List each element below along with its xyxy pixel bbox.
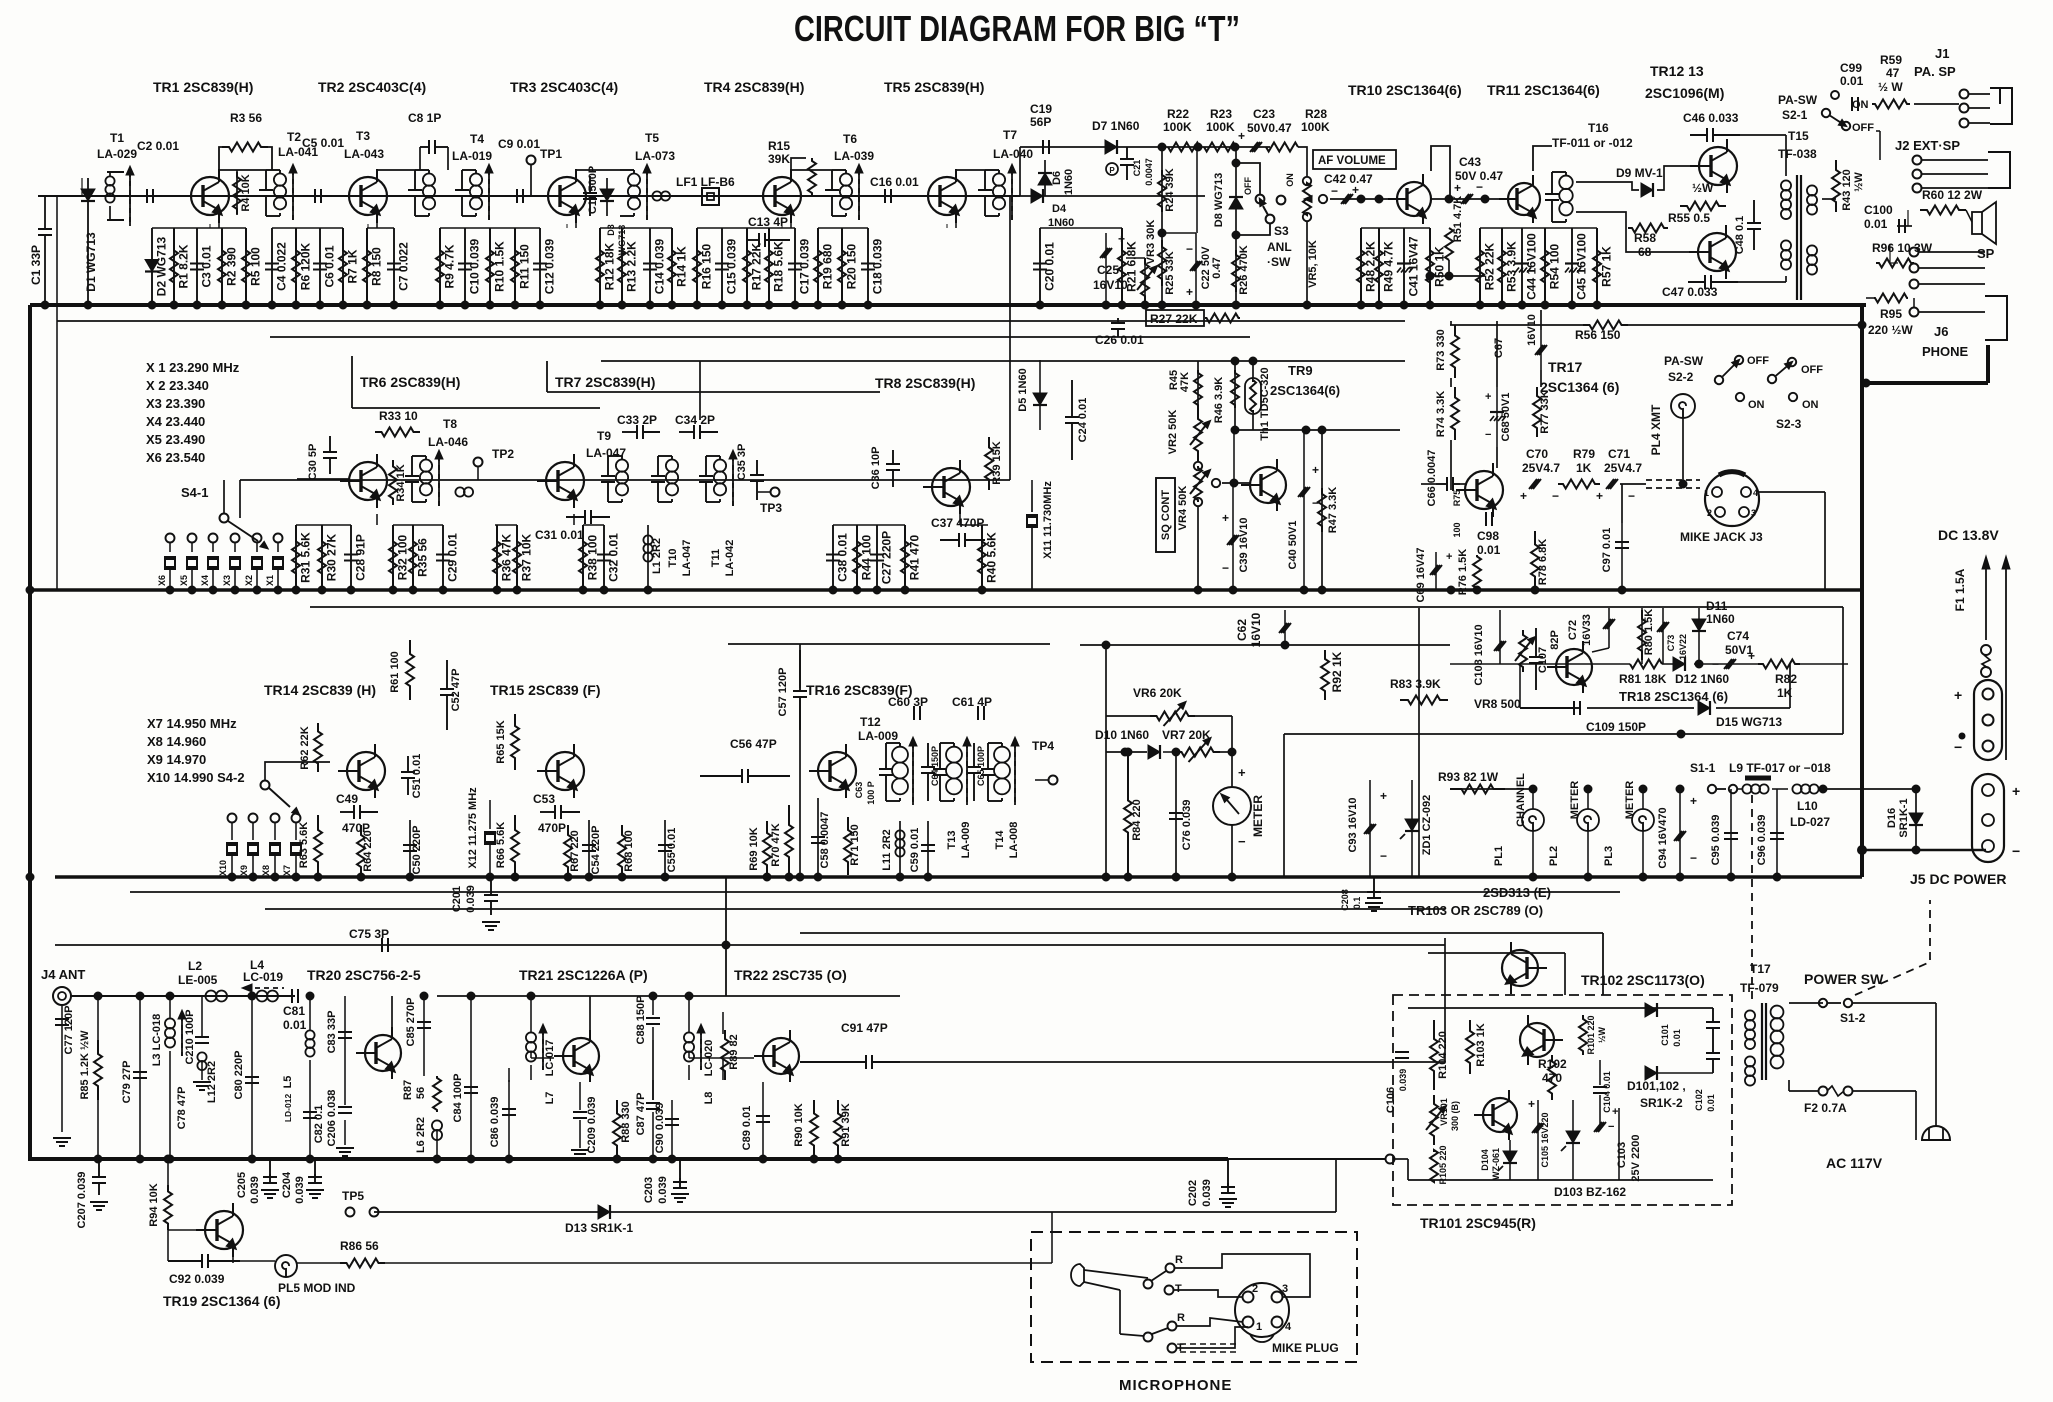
svg-text:0.1: 0.1: [1352, 897, 1362, 910]
svg-text:−: −: [1552, 489, 1559, 503]
svg-text:C82 0.1: C82 0.1: [313, 1105, 325, 1144]
resistor R47: [1321, 430, 1323, 590]
svg-text:0.039: 0.039: [249, 1176, 261, 1204]
transformer T5: [628, 174, 640, 186]
test point TP3: [771, 488, 780, 497]
transistor TR17b: [1465, 471, 1503, 509]
wire emitter drops row2: [376, 514, 378, 525]
capacitor C1: [44, 196, 46, 228]
fuse F2: [1819, 1087, 1828, 1096]
svg-text:R60 12 2W: R60 12 2W: [1922, 188, 1983, 202]
svg-text:ON: ON: [1748, 399, 1765, 411]
svg-text:L8: L8: [703, 1092, 715, 1105]
svg-text:R61 100: R61 100: [389, 651, 401, 693]
svg-text:4: 4: [1753, 488, 1758, 498]
crystal X11: [1026, 514, 1038, 516]
svg-text:R30 27K: R30 27K: [325, 533, 339, 581]
capacitor C55: [664, 820, 666, 877]
svg-text:T1: T1: [110, 131, 124, 145]
svg-text:C210 100P: C210 100P: [184, 1009, 196, 1064]
svg-text:LA-008: LA-008: [1008, 822, 1020, 859]
svg-text:C104 0.01: C104 0.01: [1602, 1071, 1612, 1113]
svg-text:PL2: PL2: [1548, 846, 1560, 866]
svg-text:R7 1K: R7 1K: [346, 249, 360, 283]
svg-text:T10: T10: [667, 549, 679, 568]
resistor R13: [621, 228, 623, 305]
svg-text:R12 18K: R12 18K: [603, 242, 617, 290]
svg-text:D13 SR1K-1: D13 SR1K-1: [565, 1221, 633, 1235]
lamp PL3: [1632, 809, 1654, 831]
svg-text:C102: C102: [1694, 1089, 1704, 1111]
mic wires: [1174, 1254, 1310, 1297]
svg-text:D101,102 ,: D101,102 ,: [1627, 1079, 1686, 1093]
potentiometer VR8: [1519, 630, 1527, 672]
svg-text:VR2 50K: VR2 50K: [1167, 410, 1179, 455]
zener D103: [1572, 1100, 1574, 1180]
svg-text:25V4.7: 25V4.7: [1522, 461, 1560, 475]
svg-text:R11 150: R11 150: [518, 244, 532, 289]
svg-text:D103 BZ-162: D103 BZ-162: [1554, 1185, 1626, 1199]
svg-text:D11: D11: [1706, 599, 1728, 613]
wire jack j1: [1914, 103, 1959, 105]
svg-text:L2: L2: [188, 959, 202, 973]
crystal bank X7-X10: [228, 814, 237, 823]
svg-text:1N60: 1N60: [1063, 169, 1075, 195]
svg-text:VR3 30K: VR3 30K: [1145, 220, 1157, 265]
resistor R67: [564, 825, 572, 877]
svg-text:R62 22K: R62 22K: [299, 726, 311, 769]
wire row1 high: [1020, 146, 1270, 148]
transformer T7: [978, 189, 992, 191]
capacitor C29: [442, 525, 444, 590]
svg-text:T5: T5: [645, 131, 659, 145]
wire tr7 frame: [546, 361, 548, 392]
svg-text:X4 23.440: X4 23.440: [146, 414, 205, 429]
svg-text:2SC1364(6): 2SC1364(6): [1270, 383, 1340, 398]
svg-text:T4: T4: [470, 132, 484, 146]
svg-text:C92 0.039: C92 0.039: [169, 1272, 225, 1286]
svg-text:R104 220: R104 220: [1437, 1031, 1449, 1079]
transformer T1: [107, 171, 124, 173]
svg-text:C20 0.01: C20 0.01: [1043, 242, 1057, 291]
svg-text:C53: C53: [533, 792, 555, 806]
transistor TR10: [1397, 182, 1431, 216]
resistor R17: [746, 228, 748, 305]
svg-text:R37 10K: R37 10K: [520, 533, 534, 581]
inductor L1: [647, 525, 649, 590]
svg-text:X3 23.390: X3 23.390: [146, 396, 205, 411]
svg-text:1: 1: [1256, 1321, 1262, 1333]
svg-text:C87 47P: C87 47P: [635, 1093, 647, 1136]
svg-text:R54 100: R54 100: [1548, 243, 1562, 289]
svg-text:+: +: [1520, 489, 1527, 503]
capacitor C51: [401, 771, 415, 773]
wire C75 line: [55, 944, 1445, 946]
svg-text:R47 3.3K: R47 3.3K: [1327, 487, 1339, 534]
wire under top bus: [57, 320, 1405, 322]
svg-text:X10 14.990 S4-2: X10 14.990 S4-2: [147, 770, 245, 785]
capacitor C93: [1369, 780, 1371, 877]
capacitor C41: [1403, 228, 1405, 305]
svg-text:C14 0.039: C14 0.039: [653, 238, 667, 294]
capacitor C65: [967, 766, 981, 768]
svg-text:PL1: PL1: [1493, 846, 1505, 866]
svg-text:J5 DC POWER: J5 DC POWER: [1910, 871, 2006, 887]
svg-text:LA-009: LA-009: [960, 822, 972, 859]
capacitor C85: [423, 996, 425, 1040]
wire tr17 block: [1450, 321, 1452, 325]
svg-text:C59 0.01: C59 0.01: [909, 828, 921, 873]
svg-text:½W: ½W: [1597, 1027, 1607, 1044]
wire under top bus 2: [270, 336, 1250, 338]
svg-text:R82: R82: [1775, 672, 1797, 686]
transistor TR7: [546, 462, 584, 500]
resistor R2: [221, 228, 223, 305]
microphone symbol: [1071, 1264, 1084, 1286]
svg-text:C209 0.039: C209 0.039: [586, 1097, 598, 1154]
resistor R65: [511, 714, 519, 770]
svg-text:R84 220: R84 220: [1131, 799, 1143, 841]
svg-text:T16: T16: [1588, 121, 1609, 135]
capacitor C12: [539, 228, 541, 305]
svg-text:100K: 100K: [1206, 120, 1235, 134]
capacitor C82: [303, 1111, 317, 1113]
svg-text:T13: T13: [946, 831, 958, 850]
transistor TR13: [1698, 233, 1736, 271]
svg-text:X7 14.950 MHz: X7 14.950 MHz: [147, 716, 237, 731]
svg-text:R55 0.5: R55 0.5: [1668, 211, 1710, 225]
potentiometer VR3: [1144, 258, 1146, 305]
svg-text:56: 56: [415, 1087, 427, 1099]
svg-text:C208: C208: [1340, 889, 1350, 911]
resistor R54: [1544, 228, 1546, 305]
svg-text:R18 5.6K: R18 5.6K: [772, 241, 786, 292]
resistor R7: [342, 228, 344, 305]
svg-text:R94 10K: R94 10K: [148, 1183, 160, 1226]
svg-text:LD-012: LD-012: [283, 1094, 293, 1123]
resistor R4: [236, 170, 238, 215]
svg-text:R9 4.7K: R9 4.7K: [443, 244, 457, 288]
wire r95: [1866, 297, 1874, 299]
resistor R8: [366, 228, 368, 305]
svg-text:LE-005: LE-005: [178, 973, 218, 987]
svg-text:R23: R23: [1210, 107, 1232, 121]
wire jack j6: [1919, 251, 1985, 253]
plug AC: [1922, 1126, 1950, 1140]
inductor L8: [684, 1032, 694, 1042]
capacitor C105: [1532, 1123, 1540, 1133]
svg-text:R34 1K: R34 1K: [395, 464, 407, 501]
capacitor C80: [251, 996, 253, 1159]
svg-text:D4: D4: [1052, 203, 1067, 215]
resistor R92: [1321, 650, 1329, 700]
svg-text:C97 0.01: C97 0.01: [1601, 528, 1613, 573]
svg-text:R13 2.2K: R13 2.2K: [625, 241, 639, 292]
inductor L2b: [455, 487, 464, 496]
resistor R70: [785, 805, 793, 877]
svg-text:T9: T9: [597, 429, 611, 443]
svg-text:C24 0.01: C24 0.01: [1077, 398, 1089, 443]
wire tr10 coll: [1431, 146, 1450, 199]
resistor R63: [314, 815, 322, 877]
capacitor C27: [876, 525, 878, 590]
svg-text:T6: T6: [843, 132, 857, 146]
svg-text:AF VOLUME: AF VOLUME: [1318, 155, 1386, 167]
svg-text:−: −: [2012, 843, 2020, 859]
wire ps top: [800, 932, 1603, 934]
svg-text:D3: D3: [606, 224, 616, 236]
svg-text:C49: C49: [336, 792, 358, 806]
resistor R64: [357, 825, 365, 877]
wire jack j2: [1922, 159, 1988, 161]
svg-text:C90 0.039: C90 0.039: [654, 1103, 666, 1154]
diode D13: [598, 1205, 610, 1219]
svg-text:J1: J1: [1935, 46, 1949, 61]
resistor R90: [810, 1100, 818, 1159]
svg-text:4: 4: [1285, 1321, 1292, 1333]
dashed box MICROPHONE: [1031, 1232, 1357, 1362]
wire tr10 out: [1432, 198, 1508, 200]
svg-text:C76 0.039: C76 0.039: [1181, 800, 1193, 851]
wire row4 top: [437, 995, 900, 997]
capacitor C90: [671, 1100, 673, 1159]
svg-text:T2: T2: [287, 130, 301, 144]
resistor R38: [582, 525, 584, 590]
capacitor C206: [338, 1106, 352, 1108]
transistor TR1: [191, 177, 229, 215]
wire row2 top: [601, 360, 1405, 362]
svg-text:TP1: TP1: [540, 147, 562, 161]
diode D6: [1044, 160, 1046, 196]
svg-text:0.0047: 0.0047: [1144, 158, 1154, 186]
mike jack J3: [1705, 472, 1759, 526]
potentiometer VR101: [1430, 1095, 1438, 1145]
bus line 2: [30, 588, 1862, 592]
svg-text:C31 0.01: C31 0.01: [535, 528, 584, 542]
svg-text:16V10: 16V10: [1249, 612, 1263, 647]
svg-text:P: P: [1109, 166, 1115, 175]
wire row1r: [1020, 195, 1205, 197]
transformer T15: [1781, 180, 1791, 190]
svg-text:R103 1K: R103 1K: [1475, 1023, 1487, 1066]
svg-text:−: −: [1380, 849, 1387, 863]
wire t15 top: [1740, 134, 1786, 136]
svg-text:2SC1096(M): 2SC1096(M): [1645, 85, 1724, 101]
svg-text:C26 0.01: C26 0.01: [1095, 333, 1144, 347]
capacitor C68: [1490, 411, 1504, 413]
diode D15: [1698, 701, 1710, 715]
wire x11 area: [1031, 480, 1033, 490]
transformer T9: [601, 475, 615, 477]
svg-text:VR8 500: VR8 500: [1474, 697, 1521, 711]
svg-text:C52 47P: C52 47P: [450, 669, 462, 712]
svg-text:R31 5.6K: R31 5.6K: [299, 532, 313, 583]
svg-text:TP4: TP4: [1032, 739, 1054, 753]
svg-text:C45 16V100: C45 16V100: [1575, 233, 1589, 300]
resistor R16: [696, 228, 698, 305]
wire tr13 base: [1576, 212, 1690, 252]
wire stage links row2: [296, 524, 351, 526]
svg-text:TR8 2SC839(H): TR8 2SC839(H): [875, 375, 975, 391]
svg-text:C68 50V1: C68 50V1: [1500, 393, 1512, 442]
capacitor C84: [470, 996, 472, 1159]
svg-text:L5: L5: [282, 1076, 294, 1089]
svg-text:C32 0.01: C32 0.01: [607, 533, 621, 582]
svg-text:C23: C23: [1253, 107, 1275, 121]
transistor TR15: [546, 752, 584, 790]
svg-text:C65 100P: C65 100P: [976, 746, 986, 786]
svg-text:C106: C106: [1385, 1087, 1397, 1113]
diode D101: [1645, 1003, 1657, 1017]
resistor R77: [1533, 387, 1541, 437]
switch S2-3: [1768, 375, 1776, 383]
resistor R61: [406, 640, 414, 700]
svg-text:−: −: [1690, 851, 1697, 865]
svg-text:X5: X5: [179, 575, 189, 586]
svg-text:C85 270P: C85 270P: [405, 998, 417, 1047]
svg-text:T11: T11: [710, 549, 722, 567]
transformer T16: [1545, 193, 1559, 195]
inductor L7: [526, 1032, 536, 1042]
capacitor C77: [61, 1005, 63, 1090]
capacitor C88: [646, 1017, 660, 1019]
svg-text:R1 8.2K: R1 8.2K: [177, 244, 191, 288]
mike plug DIN: [1235, 1283, 1289, 1337]
svg-text:R88 330: R88 330: [620, 1101, 632, 1143]
resistor R19: [817, 228, 819, 305]
svg-text:POWER SW: POWER SW: [1804, 971, 1884, 987]
svg-text:C1 33P: C1 33P: [29, 245, 43, 285]
svg-text:C29 0.01: C29 0.01: [446, 533, 460, 582]
svg-text:R75: R75: [1452, 490, 1462, 507]
svg-text:R49 4.7K: R49 4.7K: [1382, 241, 1396, 292]
svg-text:C7 0.022: C7 0.022: [397, 242, 411, 291]
svg-text:D10 1N60: D10 1N60: [1095, 728, 1149, 742]
wire pl5: [240, 1260, 275, 1262]
svg-text:T: T: [1175, 1283, 1182, 1295]
svg-text:1: 1: [1704, 488, 1709, 498]
svg-text:R68 100: R68 100: [623, 830, 635, 872]
svg-text:100 P: 100 P: [866, 781, 876, 805]
capacitor C89: [762, 1082, 764, 1159]
svg-text:AC 117V: AC 117V: [1826, 1155, 1883, 1171]
svg-text:X11 11.730MHz: X11 11.730MHz: [1042, 481, 1054, 559]
svg-text:56P: 56P: [1030, 115, 1051, 129]
capacitor C28: [350, 525, 352, 590]
capacitor C3: [196, 228, 198, 305]
capacitor C67: [1535, 345, 1543, 355]
wire t15 r43: [1822, 198, 1836, 200]
capacitor C22: [1195, 233, 1197, 305]
svg-text:TP2: TP2: [492, 447, 514, 461]
wire collector links row1: [219, 169, 266, 171]
svg-text:1K: 1K: [1576, 461, 1592, 475]
svg-text:R66 5.6K: R66 5.6K: [495, 822, 507, 869]
svg-text:2: 2: [1707, 508, 1712, 518]
switch S1-2: [1819, 999, 1827, 1007]
svg-text:X8 14.960: X8 14.960: [147, 734, 206, 749]
svg-text:C37 470P: C37 470P: [931, 516, 984, 530]
svg-text:0.039: 0.039: [294, 1176, 306, 1204]
transistor TR103: [1502, 950, 1538, 986]
svg-text:C44 16V100: C44 16V100: [1525, 233, 1539, 300]
svg-text:C27 220P: C27 220P: [880, 531, 894, 584]
wire row2 vert: [725, 877, 727, 996]
resistor R21: [1121, 228, 1123, 305]
inductor L12: [197, 1052, 206, 1061]
svg-text:220 ½W: 220 ½W: [1868, 323, 1913, 337]
svg-text:C89 0.01: C89 0.01: [741, 1106, 753, 1151]
svg-text:C78 47P: C78 47P: [176, 1087, 188, 1130]
svg-text:R36 47K: R36 47K: [500, 533, 514, 581]
wire 734: [1450, 733, 1843, 735]
svg-text:39K: 39K: [768, 152, 790, 166]
svg-text:R26 470K: R26 470K: [1238, 245, 1250, 295]
capacitor C209: [573, 1111, 587, 1113]
resistor R73: [1451, 325, 1459, 378]
resistor R52: [1479, 228, 1481, 305]
svg-text:R33 10: R33 10: [379, 409, 418, 423]
svg-text:TR4 2SC839(H): TR4 2SC839(H): [704, 79, 804, 95]
svg-text:−: −: [1628, 489, 1635, 503]
svg-text:+: +: [1380, 789, 1387, 803]
svg-text:R40 5.6K: R40 5.6K: [985, 532, 999, 583]
svg-text:SR1K-1: SR1K-1: [1898, 798, 1910, 837]
tank T10: [651, 475, 665, 477]
svg-text:C101: C101: [1660, 1024, 1670, 1046]
svg-text:LA-073: LA-073: [635, 149, 675, 163]
svg-text:TR2 2SC403C(4): TR2 2SC403C(4): [318, 79, 426, 95]
svg-text:WZ-061: WZ-061: [1491, 1148, 1501, 1180]
svg-text:T7: T7: [1003, 128, 1017, 142]
transistor TR12: [1699, 147, 1737, 185]
svg-text:C21: C21: [1132, 160, 1142, 177]
svg-text:METER: METER: [1251, 795, 1265, 837]
svg-text:R76 1.5K: R76 1.5K: [1457, 549, 1469, 596]
svg-text:C77 120P: C77 120P: [63, 1006, 75, 1055]
svg-text:C94 16V470: C94 16V470: [1657, 807, 1669, 868]
svg-text:TR10 2SC1364(6): TR10 2SC1364(6): [1348, 82, 1462, 98]
capacitor C81: [291, 989, 293, 1003]
svg-text:OFF: OFF: [1852, 122, 1874, 134]
svg-text:PL3: PL3: [1603, 846, 1615, 866]
capacitor C104: [1593, 1086, 1607, 1088]
svg-text:½W: ½W: [1853, 172, 1865, 192]
diode D4: [1031, 189, 1043, 203]
svg-text:82P: 82P: [1549, 630, 1561, 650]
capacitor C59: [927, 821, 929, 877]
svg-text:X6 23.540: X6 23.540: [146, 450, 205, 465]
resistor R50: [1429, 228, 1431, 305]
svg-text:50V0.47: 50V0.47: [1247, 121, 1292, 135]
svg-text:C207 0.039: C207 0.039: [76, 1172, 88, 1229]
svg-text:+: +: [1186, 285, 1193, 299]
box SQ CONT: [1156, 478, 1175, 552]
svg-text:+: +: [1238, 129, 1245, 143]
svg-text:ON: ON: [1285, 173, 1295, 187]
svg-text:MIKE JACK J3: MIKE JACK J3: [1680, 530, 1763, 544]
capacitor C15: [721, 228, 723, 305]
svg-text:C70: C70: [1526, 447, 1548, 461]
svg-text:C67: C67: [1493, 338, 1505, 358]
svg-text:S2-2: S2-2: [1668, 370, 1694, 384]
svg-text:D9 MV-1: D9 MV-1: [1616, 166, 1663, 180]
svg-text:3: 3: [1751, 508, 1756, 518]
resistor R9: [439, 228, 441, 305]
transistor TR5: [928, 177, 966, 215]
svg-text:C81: C81: [283, 1004, 305, 1018]
transistor TR18: [1556, 649, 1592, 685]
